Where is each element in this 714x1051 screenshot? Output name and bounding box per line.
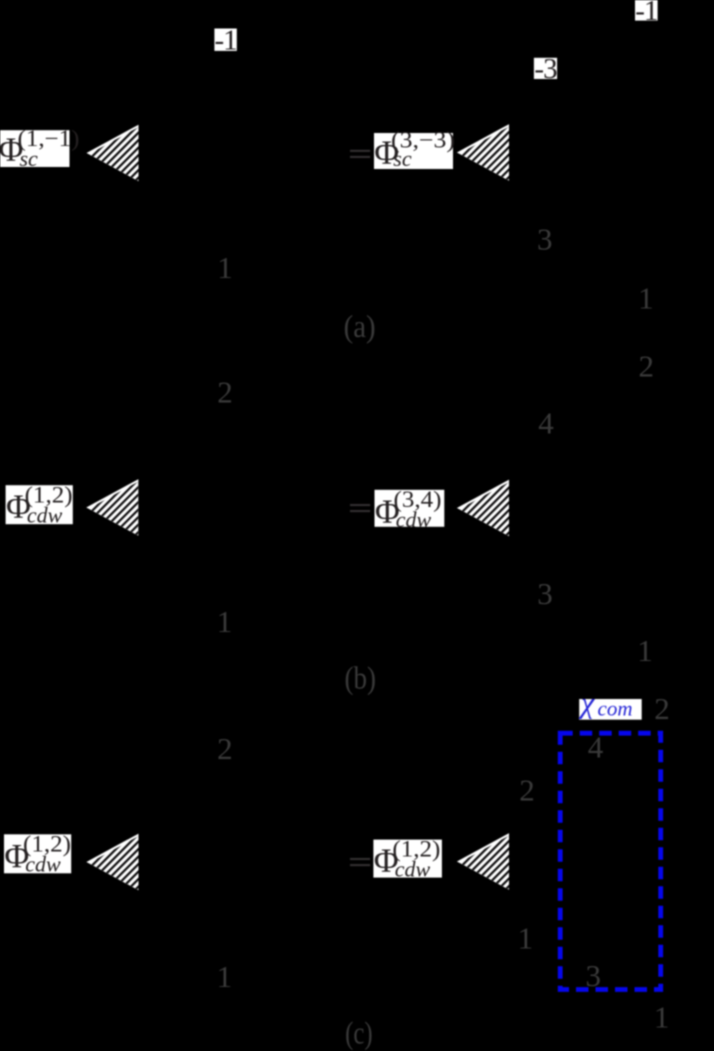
label box -1 (top of left diagram a) [214, 25, 236, 57]
label box -1 (top right) [635, 0, 658, 27]
vertex label box Phi_cdw^(3,4) [375, 487, 445, 532]
svg-text:2: 2 [654, 691, 670, 726]
svg-text:3: 3 [537, 576, 553, 611]
svg-text:2: 2 [217, 375, 233, 410]
svg-text:1: 1 [518, 920, 534, 955]
equals sign row c [350, 858, 370, 866]
svg-text:1: 1 [654, 999, 670, 1034]
svg-text:cdw: cdw [25, 852, 61, 877]
svg-text:(b): (b) [345, 659, 377, 695]
svg-text:sc: sc [20, 146, 39, 171]
hatched triangle vertex b-right [457, 479, 510, 537]
svg-text:1: 1 [638, 280, 654, 315]
hatched triangle vertex c-right [457, 833, 510, 891]
hatched triangle vertex c-left [87, 833, 140, 891]
svg-text:3: 3 [537, 222, 553, 257]
hatched triangle vertex a-right [457, 124, 510, 182]
svg-text:com: com [598, 696, 633, 720]
svg-text:2: 2 [638, 348, 654, 383]
chi_com dashed blue box [560, 733, 661, 989]
svg-text:-3: -3 [534, 53, 557, 85]
svg-text:cdw: cdw [396, 507, 432, 532]
svg-text:4: 4 [588, 729, 604, 764]
svg-text:1: 1 [217, 959, 233, 994]
vertex label box Phi_sc^(3,-3) [374, 127, 455, 171]
equals sign row b [350, 504, 370, 512]
equals sign row a [350, 150, 370, 158]
hatched triangle vertex a-left [87, 124, 140, 182]
svg-text:-1: -1 [215, 25, 237, 57]
vertex label box Phi_sc^(1,-1) [0, 126, 80, 171]
chi_com label box (blue text on white) [578, 687, 642, 721]
svg-text:-1: -1 [635, 0, 657, 27]
svg-text:4: 4 [538, 405, 554, 440]
vertex label box Phi_cdw^(1,2) [6, 483, 73, 528]
svg-text:1: 1 [637, 633, 653, 668]
svg-text:(c): (c) [345, 1014, 373, 1050]
svg-text:2: 2 [519, 772, 535, 807]
svg-text:cdw: cdw [395, 857, 431, 882]
hatched triangle vertex b-left [86, 479, 139, 537]
svg-text:cdw: cdw [27, 503, 63, 528]
svg-text:2: 2 [217, 731, 233, 766]
svg-text:1: 1 [217, 604, 233, 639]
svg-text:1: 1 [217, 250, 233, 285]
label box -3 [534, 53, 557, 85]
svg-text:χ: χ [578, 687, 595, 720]
svg-text:(a): (a) [344, 308, 376, 344]
svg-text:sc: sc [393, 146, 412, 171]
vertex label box Phi_cdw^(1,2) c-left [4, 832, 71, 877]
vertex label box Phi_cdw^(1,2) c-right [373, 837, 442, 882]
svg-text:3: 3 [585, 958, 601, 993]
